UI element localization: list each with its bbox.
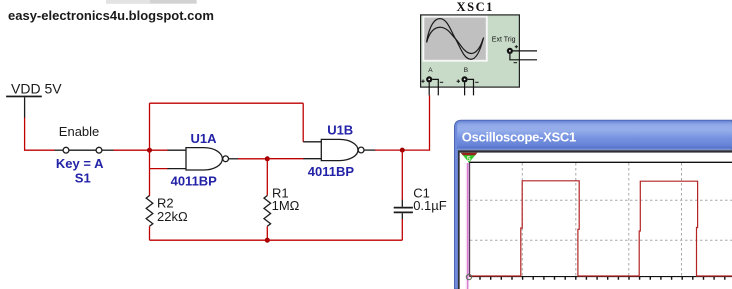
screen sine wave large <box>427 19 484 60</box>
svg-text:Key = A: Key = A <box>56 156 104 171</box>
svg-text:Enable: Enable <box>59 124 99 139</box>
wire node A to U1A lower input <box>150 168 169 170</box>
cursor axis handle circle <box>466 274 471 279</box>
capacitor C1 <box>394 200 413 220</box>
svg-text:easy-electronics4u.blogspot.co: easy-electronics4u.blogspot.com <box>8 8 214 23</box>
scope graph frame left <box>468 162 470 276</box>
svg-text:4011BP: 4011BP <box>308 164 355 179</box>
wire U1B output to node C and scope riser <box>375 95 430 150</box>
terminal B <box>457 76 479 95</box>
svg-text:0.1µF: 0.1µF <box>413 198 447 213</box>
wire feedback top horizontal <box>150 102 304 104</box>
wire node A down to R2 <box>149 169 151 196</box>
bottom rail wire <box>150 239 403 241</box>
svg-text:VDD 5V: VDD 5V <box>11 80 62 96</box>
svg-text:S1: S1 <box>75 170 91 185</box>
switch S1 <box>55 147 114 153</box>
svg-text:B: B <box>464 67 468 74</box>
svg-text:A: A <box>428 67 433 74</box>
wire node C down to C1 <box>401 150 403 200</box>
svg-text:Oscilloscope-XSC1: Oscilloscope-XSC1 <box>462 130 576 145</box>
scope grid vertical dashed <box>522 163 681 276</box>
terminal A <box>421 76 443 95</box>
wire feedback vertical at node A <box>149 103 151 168</box>
wire switch to node A <box>114 149 169 151</box>
resistor R1 <box>264 196 271 227</box>
svg-text:U1A: U1A <box>191 131 218 146</box>
scope grid horizontal dashed <box>470 200 732 240</box>
oscilloscope icon screen <box>422 16 487 62</box>
scope square wave trace <box>470 181 732 276</box>
svg-text:U1B: U1B <box>327 123 353 138</box>
scope cursor 1 magenta line <box>466 163 469 289</box>
node D junction (R1 / bottom rail) <box>265 238 270 243</box>
wire R1 bottom <box>266 226 268 240</box>
wire node B down to R1 <box>266 159 268 196</box>
svg-text:5: 5 <box>467 156 471 163</box>
wire C1 bottom <box>401 219 403 240</box>
resistor R2 <box>146 196 153 227</box>
node C junction <box>400 148 405 153</box>
scope x axis <box>469 276 732 278</box>
svg-text:1MΩ: 1MΩ <box>272 198 300 213</box>
oscilloscope icon body <box>421 15 520 87</box>
VDD power rail symbol <box>6 96 42 98</box>
cursor flag marker <box>461 153 478 163</box>
node B junction <box>265 156 270 161</box>
svg-text:Ext Trig: Ext Trig <box>492 37 516 44</box>
node A junction <box>147 148 152 153</box>
wire feedback down to U1B input <box>302 103 304 142</box>
nand gate U1A <box>168 148 239 170</box>
scope graph frame top <box>469 161 732 163</box>
cropped text remnant at top edge <box>106 0 197 4</box>
svg-text:22kΩ: 22kΩ <box>157 209 188 224</box>
ext trig terminal <box>507 45 537 63</box>
wire U1A output to node B <box>238 158 267 160</box>
nand gate U1B <box>303 139 375 160</box>
wire node B to U1B lower input <box>267 158 304 160</box>
svg-text:4011BP: 4011BP <box>171 174 218 189</box>
wire R2 bottom <box>149 226 151 240</box>
wire VDD to switch <box>25 118 55 151</box>
oscilloscope window frame <box>455 120 732 289</box>
scope axis ticks <box>480 277 725 280</box>
screen sine wave small <box>427 27 483 53</box>
svg-text:XSC1: XSC1 <box>457 0 494 14</box>
